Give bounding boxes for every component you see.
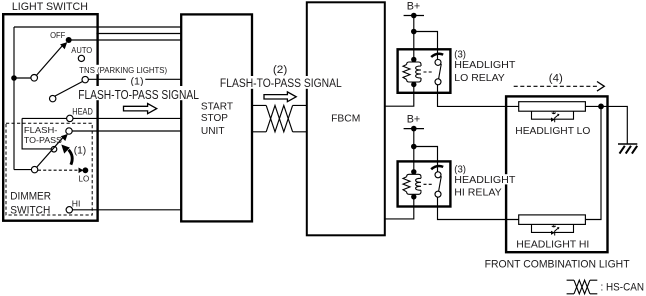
wire: B+ branch to HI relay switch <box>414 147 438 172</box>
svg-text:STOP: STOP <box>201 113 228 124</box>
wire: HI relay coil to FBCM <box>385 199 414 219</box>
dashed arrow (4) <box>514 82 605 92</box>
flash-to-pass mid contact <box>51 146 57 152</box>
bulb glyph LO <box>551 112 559 123</box>
TNS contact <box>82 76 88 82</box>
svg-text:: HS-CAN: : HS-CAN <box>601 282 645 294</box>
flash-to-pass contact <box>66 128 72 134</box>
box: START STOP UNIT <box>181 14 252 221</box>
wire: B+ to headlight HI relay coil <box>413 129 415 170</box>
wire: HEAD branch down to flash contact <box>22 118 51 148</box>
signal arrow 2 (SSU to FBCM) <box>264 92 296 102</box>
HEAD contact <box>67 115 73 121</box>
svg-text:FLASH-: FLASH- <box>24 126 58 135</box>
wire: flash-to-pass contact to START STOP UNIT <box>72 130 181 132</box>
ground <box>618 144 637 154</box>
flash-to-pass arm <box>37 138 63 167</box>
svg-text:(3): (3) <box>454 165 466 176</box>
label TNS <box>79 65 169 74</box>
svg-text:SWITCH: SWITCH <box>10 205 50 217</box>
resistor (relay LO) <box>403 65 410 80</box>
box: HEADLIGHT LO RELAY <box>398 49 451 93</box>
svg-text:(1): (1) <box>74 145 87 157</box>
junction: feed to main pivot <box>11 75 17 81</box>
flash-to-pass pivot <box>31 166 37 172</box>
B+ terminal HI <box>404 126 424 132</box>
wire: LO relay switch to headlight LO <box>438 85 519 107</box>
relay HI internals <box>403 166 443 199</box>
svg-text:B+: B+ <box>407 114 421 126</box>
wire: common ground vertical to headlight HI <box>586 106 601 219</box>
main pivot contact <box>31 75 38 82</box>
wire: feed branch to main switch pivot <box>14 77 31 79</box>
svg-text:HEAD: HEAD <box>72 107 93 117</box>
svg-text:(4): (4) <box>549 72 563 84</box>
svg-text:HI RELAY: HI RELAY <box>454 187 502 198</box>
relay branch frame <box>407 60 421 85</box>
headlight HI lamp <box>519 215 586 236</box>
HS-CAN legend symbol <box>567 280 598 294</box>
svg-text:START: START <box>201 101 233 112</box>
junction: B+ HI split <box>411 144 417 150</box>
bulb glyph HI <box>551 225 559 236</box>
light switch internals <box>11 37 88 213</box>
wire: B+ branch to LO relay switch <box>414 32 438 60</box>
svg-text:DIMMER: DIMMER <box>10 191 51 203</box>
svg-text:LO RELAY: LO RELAY <box>454 73 505 84</box>
headlight LO lamp <box>519 102 586 123</box>
svg-text:LIGHT SWITCH: LIGHT SWITCH <box>12 1 88 13</box>
wire: LO relay coil to FBCM <box>385 87 414 107</box>
AUTO contact <box>78 55 84 61</box>
twisted pair: crossing wires <box>266 105 292 131</box>
svg-text:FLASH-TO-PASS SIGNAL: FLASH-TO-PASS SIGNAL <box>78 87 199 102</box>
wire: left feed vertical inside light switch <box>13 27 15 170</box>
wire: HEAD contact line to START STOP UNIT <box>22 117 181 119</box>
label FLASH-TO-PASS SIGNAL 1 with white mask <box>77 86 202 102</box>
coil (relay HI) <box>416 177 421 192</box>
coil (relay LO) <box>416 65 421 80</box>
OFF contact (closed) <box>66 37 72 43</box>
HI contact <box>66 207 72 213</box>
wire: headlight LO to ground <box>585 106 627 143</box>
svg-text:FRONT COMBINATION LIGHT: FRONT COMBINATION LIGHT <box>485 259 630 271</box>
svg-text:B+: B+ <box>407 0 421 12</box>
svg-text:LO: LO <box>79 175 90 184</box>
curved arrow (1) dimmer <box>69 150 73 165</box>
relay switch arc <box>431 166 443 169</box>
svg-text:FBCM: FBCM <box>331 114 360 125</box>
svg-text:HI: HI <box>72 199 81 209</box>
svg-text:HEADLIGHT HI: HEADLIGHT HI <box>516 240 589 251</box>
svg-text:UNIT: UNIT <box>201 126 225 137</box>
wire: dimmer HI contact to START STOP UNIT <box>72 209 181 211</box>
LO contact (dot) <box>83 167 89 173</box>
box: FRONT COMBINATION LIGHT <box>506 96 607 252</box>
svg-text:(2): (2) <box>273 64 287 76</box>
main switch arm to OFF <box>37 46 63 75</box>
relay coil junction dots <box>411 57 416 62</box>
relay switch contacts <box>435 59 441 65</box>
twisted pair: START STOP UNIT to FBCM stub wires <box>253 105 306 131</box>
box: FBCM <box>307 2 385 235</box>
svg-text:AUTO: AUTO <box>71 45 92 55</box>
dashed arm to LO <box>38 169 78 171</box>
signal arrow 1 (flash-to-pass to SSU) <box>124 104 157 114</box>
svg-text:TO-PASS: TO-PASS <box>24 136 63 145</box>
svg-text:FLASH-TO-PASS SIGNAL: FLASH-TO-PASS SIGNAL <box>220 76 342 90</box>
resistor (relay HI) <box>403 177 410 192</box>
svg-text:HEADLIGHT LO: HEADLIGHT LO <box>515 126 590 137</box>
label (1) wire with white mask <box>126 75 146 88</box>
svg-text:OFF: OFF <box>50 30 65 40</box>
box: HEADLIGHT HI RELAY <box>398 161 451 206</box>
junction: B+ LO split <box>411 29 417 35</box>
relay switch arc <box>431 54 443 57</box>
svg-text:HEADLIGHT: HEADLIGHT <box>454 60 515 71</box>
wire: HI relay switch to headlight HI <box>438 197 519 219</box>
wire: light switch feed top (OFF common) to START STOP UNIT <box>14 26 181 28</box>
dashed link coil to switch <box>424 183 434 185</box>
wire: B+ to headlight LO relay coil <box>413 16 415 58</box>
svg-text:HEADLIGHT: HEADLIGHT <box>454 175 515 186</box>
relay switch arm <box>439 64 442 79</box>
box: DIMMER SWITCH (dashed) <box>6 123 92 215</box>
dashed link coil to switch <box>424 71 434 73</box>
box: LIGHT SWITCH <box>3 14 97 221</box>
label FLASH-TO-PASS SIGNAL 2 with white mask <box>218 76 344 90</box>
wire: stub from light switch edge to START STOP UNIT <box>96 33 181 35</box>
wire: OFF contact to START STOP UNIT <box>69 39 182 41</box>
wire: TNS contact to START STOP UNIT (1) <box>88 78 181 80</box>
TNS arm <box>55 82 82 97</box>
wire: feed branch to flash-to-pass pivot <box>14 169 32 171</box>
junction: headlight LO to ground <box>598 104 604 110</box>
svg-text:TNS (PARKING LIGHTS): TNS (PARKING LIGHTS) <box>79 65 167 75</box>
relay LO internals <box>403 54 443 87</box>
B+ terminal LO <box>404 13 424 19</box>
svg-text:(3): (3) <box>454 50 466 61</box>
